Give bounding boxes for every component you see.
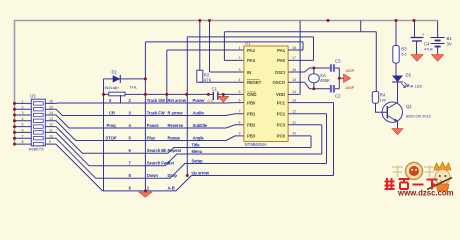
ground at Q1 <box>392 129 403 135</box>
svg-text:7: 7 <box>22 134 24 138</box>
wire OSCO net <box>288 82 331 89</box>
crystal X1 <box>309 68 320 89</box>
svg-text:13: 13 <box>49 117 53 121</box>
svg-text:Menu: Menu <box>192 149 203 154</box>
svg-text:PA1: PA1 <box>277 48 286 53</box>
svg-text:Search Bk: Search Bk <box>147 148 167 153</box>
svg-text:D2: D2 <box>406 73 412 78</box>
svg-text:PA3: PA3 <box>247 58 256 63</box>
svg-text:17: 17 <box>292 56 296 60</box>
svg-text:10: 10 <box>49 134 53 138</box>
svg-text:Repeat: Repeat <box>168 148 182 153</box>
wire PA0 net right <box>288 37 313 61</box>
wire column wrap-B down to row7 <box>186 37 188 176</box>
wire U3 pin 4 to key row 4 <box>45 121 244 141</box>
svg-text:16: 16 <box>292 68 296 72</box>
svg-text:CR: CR <box>109 110 115 115</box>
svg-text:VDD: VDD <box>276 92 285 97</box>
wire wrap line C <box>145 41 303 43</box>
svg-text:3: 3 <box>239 68 241 72</box>
wire U3 pin 3 to key row 3 <box>45 115 244 128</box>
svg-text:9: 9 <box>239 132 241 136</box>
svg-text:R4: R4 <box>380 93 386 98</box>
svg-text:8: 8 <box>239 121 241 125</box>
svg-text:13: 13 <box>292 98 296 102</box>
IC pin numbers <box>239 46 297 136</box>
wire D1/R1 left leg <box>103 79 105 95</box>
svg-text:47K: 47K <box>204 78 212 83</box>
svg-text:www.dzsc.com: www.dzsc.com <box>397 189 454 198</box>
svg-text:1: 1 <box>22 100 24 104</box>
svg-text:GND: GND <box>247 92 256 97</box>
svg-text:PC1: PC1 <box>277 100 286 105</box>
capacitor C4 <box>411 21 424 55</box>
svg-text:12: 12 <box>292 110 296 114</box>
svg-text:PC0: PC0 <box>277 134 286 139</box>
ground at C4 <box>411 55 423 62</box>
svg-text:RESET: RESET <box>247 80 262 85</box>
svg-text:5: 5 <box>239 90 241 94</box>
wire PC3 net <box>288 125 322 154</box>
svg-text:180P: 180P <box>345 85 355 90</box>
svg-text:12: 12 <box>49 123 53 127</box>
wire wrap line A <box>224 31 376 33</box>
wire U3 pin 7 to key row 7 <box>45 138 326 178</box>
wire wrap line B <box>187 36 313 38</box>
svg-text:Search Fwd: Search Fwd <box>147 161 170 166</box>
svg-text:Drop: Drop <box>168 173 178 178</box>
resistor R1 <box>104 92 244 96</box>
svg-text:4: 4 <box>239 78 241 82</box>
svg-text:100: 100 <box>380 99 386 103</box>
svg-text:PB1: PB1 <box>247 112 256 117</box>
watermark faint text <box>392 166 435 178</box>
wire PA3 riser to wrap A <box>223 32 225 61</box>
svg-text:R08K7S: R08K7S <box>29 146 44 151</box>
U3 left pin stubs <box>15 103 32 144</box>
svg-text:7: 7 <box>239 110 241 114</box>
svg-text:15: 15 <box>49 105 53 109</box>
wire LED to collector <box>397 82 399 103</box>
connector U3 body <box>31 99 45 146</box>
svg-text:14: 14 <box>292 90 296 94</box>
svg-text:U3: U3 <box>30 94 36 99</box>
svg-text:OSCI: OSCI <box>275 70 285 75</box>
svg-text:0.1: 0.1 <box>208 98 214 103</box>
svg-text:NT9B625IA: NT9B625IA <box>245 142 267 147</box>
resistor R2 <box>197 21 203 83</box>
resistor R4 <box>372 32 378 103</box>
svg-text:455K: 455K <box>320 78 330 83</box>
svg-text:STOP: STOP <box>106 135 117 140</box>
svg-text:IN: IN <box>247 70 251 75</box>
svg-text:6: 6 <box>22 129 24 133</box>
wire short column to row1 <box>120 95 122 103</box>
svg-text:3: 3 <box>22 111 24 115</box>
svg-text:D1: D1 <box>112 70 118 75</box>
svg-text:8050 OR 9013: 8050 OR 9013 <box>406 115 431 119</box>
wire PA2 net <box>167 49 244 51</box>
wire PC2 net <box>288 114 326 164</box>
svg-text:Angle: Angle <box>193 135 205 140</box>
wire column D1 net down to row8 <box>144 42 146 191</box>
svg-text:OSCO: OSCO <box>272 80 285 85</box>
svg-text:IR LED: IR LED <box>410 84 423 89</box>
IC U1 body <box>244 46 288 142</box>
wire PC0 net <box>288 136 311 148</box>
svg-text:5.6: 5.6 <box>401 53 406 57</box>
ground sideways at crystal <box>344 74 351 83</box>
wire PC1 net <box>288 103 333 176</box>
ground at key matrix bottom <box>139 191 152 197</box>
svg-text:A-B: A-B <box>168 186 175 191</box>
svg-text:6: 6 <box>239 98 241 102</box>
svg-text:47UF: 47UF <box>424 48 434 52</box>
svg-text:C1: C1 <box>212 87 218 92</box>
wire VDD net <box>288 21 300 95</box>
svg-text:1: 1 <box>239 46 241 50</box>
svg-text:Power: Power <box>193 98 206 103</box>
svg-text:C2: C2 <box>335 94 341 99</box>
svg-text:11: 11 <box>49 129 53 133</box>
capacitor C1 <box>213 92 218 100</box>
svg-text:PC2: PC2 <box>277 112 286 117</box>
border frame / power rail <box>15 21 438 145</box>
svg-text:Pause: Pause <box>147 123 160 128</box>
svg-text:C3: C3 <box>335 59 341 64</box>
svg-text:Play: Play <box>147 135 156 140</box>
svg-text:Reverse: Reverse <box>168 123 184 128</box>
svg-text:Rst: Rst <box>168 161 175 166</box>
watermark text wei ku yi xia <box>385 178 438 190</box>
LED D2 <box>392 76 408 88</box>
diode D1 <box>104 75 146 83</box>
svg-text:Track SW: Track SW <box>147 98 165 103</box>
ground at B1 <box>432 55 444 62</box>
svg-text:Prog: Prog <box>107 123 117 128</box>
svg-text:15: 15 <box>292 78 296 82</box>
battery B1 <box>431 21 445 55</box>
svg-text:R arrow: R arrow <box>168 110 184 115</box>
svg-text:PB3: PB3 <box>247 134 256 139</box>
transistor Q1 <box>376 102 403 122</box>
ground at C1 <box>218 94 229 102</box>
wire caps common <box>335 68 344 89</box>
resistor R3 <box>393 21 399 76</box>
capacitor C3 <box>331 64 334 72</box>
wire U3 pin 6 to key row 6 <box>45 132 322 165</box>
svg-text:16: 16 <box>49 100 53 104</box>
wire RESET net <box>200 81 244 83</box>
wire IN net riser <box>209 21 211 73</box>
svg-text:+: + <box>422 32 425 37</box>
svg-text:THL: THL <box>130 85 138 90</box>
connector U3 pin numbers <box>22 100 54 145</box>
value labels red <box>114 32 425 103</box>
wire column PA2 net down to row1 <box>166 50 168 103</box>
wire IN net <box>210 71 244 73</box>
watermark mascot <box>427 162 452 191</box>
svg-text:PA2: PA2 <box>247 48 256 53</box>
wire PA3 net <box>224 59 244 61</box>
svg-text:U1: U1 <box>245 41 251 46</box>
svg-text:Q1: Q1 <box>406 104 412 109</box>
svg-text:4: 4 <box>22 117 24 121</box>
svg-text:11: 11 <box>292 121 296 125</box>
svg-text:B1: B1 <box>447 36 453 41</box>
svg-text:2: 2 <box>22 105 24 109</box>
svg-text:Title: Title <box>192 142 201 147</box>
watermark badge <box>406 163 423 180</box>
svg-text:R3: R3 <box>401 47 407 52</box>
pin RESET overline <box>247 79 260 81</box>
svg-text:2: 2 <box>239 56 241 60</box>
svg-text:180P: 180P <box>345 68 355 73</box>
svg-text:C4: C4 <box>424 42 430 47</box>
wire PA1 net right <box>288 42 303 50</box>
svg-text:Range: Range <box>168 135 181 140</box>
IC pin name labels <box>247 48 286 139</box>
wire emitter to ground <box>397 122 399 129</box>
wire OSCI net <box>288 68 331 72</box>
svg-text:14: 14 <box>49 111 53 115</box>
svg-text:8: 8 <box>22 140 24 144</box>
svg-text:Up arrow: Up arrow <box>192 170 210 175</box>
pin GND overline <box>247 91 256 93</box>
svg-text:PB0: PB0 <box>247 100 256 105</box>
svg-text:Audio: Audio <box>193 110 205 115</box>
svg-text:5: 5 <box>22 123 24 127</box>
svg-text:3V: 3V <box>447 42 452 47</box>
svg-text:PA0: PA0 <box>277 58 286 63</box>
wire U3 pin 2 to key row 2 <box>45 109 244 115</box>
capacitor C2 <box>331 85 334 93</box>
wire bus tap to wrap A <box>360 21 362 32</box>
svg-text:Track FW: Track FW <box>147 110 165 115</box>
svg-text:Rst arrow: Rst arrow <box>168 98 187 103</box>
svg-text:PC3: PC3 <box>277 123 286 128</box>
wire U3 pin 1 to key row 1 <box>45 102 244 105</box>
wire U3 pin 5 to key row 5 <box>45 127 311 154</box>
wire U3 pin 8 to key row 8 <box>45 144 333 191</box>
svg-text:Subtitle: Subtitle <box>193 123 208 128</box>
svg-text:PB2: PB2 <box>247 123 256 128</box>
svg-text:9: 9 <box>49 140 51 144</box>
key matrix row labels <box>106 98 210 191</box>
svg-text:4.7: 4.7 <box>114 87 119 91</box>
svg-text:10: 10 <box>292 132 296 136</box>
svg-text:Setup: Setup <box>192 158 204 163</box>
svg-text:Down: Down <box>147 173 159 178</box>
wire column D1 left leg down to row8 <box>103 94 105 190</box>
svg-text:18: 18 <box>292 46 296 50</box>
